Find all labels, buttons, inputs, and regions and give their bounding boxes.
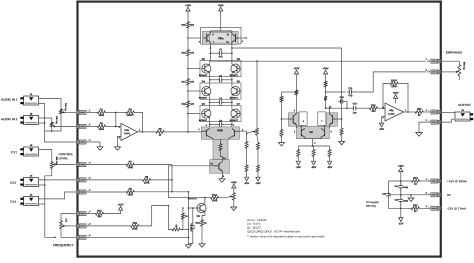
wire J2 sleeve to ground bus: [39, 122, 45, 124]
wire border to J6 sleeve: [441, 119, 455, 122]
connector K9 on left border: [76, 236, 79, 240]
resistor R23 1k: [414, 111, 424, 114]
svg-text:-15V: -15V: [311, 166, 317, 169]
wire ladder output left to emphasis: [210, 60, 257, 62]
transistor U2 outer left: [292, 115, 294, 123]
svg-text:10k log: 10k log: [64, 103, 67, 111]
wire connector7 to R10: [90, 213, 94, 215]
connector K3 on left border: [76, 140, 79, 144]
transistor U1 tail: [218, 163, 220, 169]
resistor U2 right bias lower: [324, 95, 327, 102]
trimmer offset: [182, 220, 183, 229]
svg-text:OUTPUT: OUTPUT: [458, 103, 471, 107]
pair box Q2/Q3: [200, 61, 241, 77]
svg-text:47p: 47p: [348, 94, 353, 97]
svg-text:100k: 100k: [127, 193, 133, 196]
wire chain to Q6 base: [188, 113, 202, 115]
svg-text:+15V @ 32mA: +15V @ 32mA: [447, 179, 468, 183]
resistor R7 100k: [125, 163, 135, 166]
op array U1 pins 13/14 transistor box: [210, 160, 230, 174]
resistor R19: [245, 140, 248, 149]
ground 0V: [410, 196, 412, 198]
svg-text:BC547C: BC547C: [199, 119, 208, 122]
wire P4 bottom to connector 9: [61, 230, 74, 237]
wire C13 to R21: [358, 107, 368, 109]
wire output sleeve to ground: [419, 122, 427, 130]
capacitor C4 47n: [209, 122, 211, 127]
power -15V b: [257, 173, 259, 178]
power -15V U2 b: [313, 158, 315, 162]
wire U3b feedback loop: [383, 84, 389, 109]
wire connector2 to R2: [90, 125, 96, 127]
ground output: [418, 131, 420, 133]
wire U3b output to R23: [404, 111, 415, 113]
svg-text:BC547C: BC547C: [199, 74, 208, 77]
wire P1 bottom to ground bus: [45, 115, 61, 131]
ground audio return: [99, 145, 101, 147]
wire connector3 to ground: [90, 142, 100, 145]
wire J4 tip to connector 5: [39, 179, 74, 181]
wires Q6/Q7 collectors/emitters: [209, 106, 211, 110]
wire R8 to CV bus: [152, 179, 172, 181]
resistor R15: [187, 21, 190, 30]
svg-text:TL072: TL072: [388, 113, 395, 116]
svg-text:filtering: filtering: [366, 205, 376, 208]
svg-text:U3a: U3a: [125, 129, 130, 132]
wire chain to Q4 base: [188, 90, 202, 92]
wire J3 tip to P3 top: [39, 150, 52, 161]
wire ladder output right tap: [232, 47, 342, 49]
connector K1 on left border: [76, 111, 79, 115]
connector K6 on left border: [76, 190, 79, 194]
svg-text:+15V: +15V: [294, 67, 300, 70]
wire R21 to U3b inverting input: [379, 107, 385, 109]
svg-text:A B: A B: [64, 218, 67, 222]
power -15V U3b: [382, 116, 386, 118]
connector K5 on left border: [76, 178, 79, 182]
jack J1 AUDIO IN 1: [24, 96, 39, 105]
gray tail U1 current source: [213, 139, 228, 159]
ground U2 left: [281, 141, 283, 143]
svg-text:R22**: R22**: [391, 79, 397, 82]
wire J4 sleeve to CV ground bus: [39, 184, 45, 186]
ground U2 right: [341, 140, 343, 142]
wires U2 outer left connections: [295, 107, 297, 114]
wire U2 right base column: [338, 48, 342, 119]
wire J2 tip to P2 top: [39, 118, 52, 121]
resistor U2 right bias upper: [324, 80, 327, 88]
svg-text:R16: R16: [182, 51, 187, 54]
svg-text:CV1: CV1: [11, 150, 17, 154]
resistor tail R: [219, 142, 222, 151]
svg-text:Q1 : BC557: Q1 : BC557: [247, 227, 262, 230]
op array U2 CA3046 mirror box: [296, 126, 329, 139]
capacitor C10 4u7: [339, 100, 341, 102]
wire chain to Q2 base: [188, 68, 202, 70]
capacitor C16 100u: [400, 195, 402, 200]
svg-text:TL072: TL072: [124, 132, 131, 135]
capacitor C15 100n: [387, 191, 389, 194]
wire R9 to expo base bus: [135, 191, 188, 193]
svg-text:100k: 100k: [132, 227, 138, 230]
wire R6 to U1/b pin 4: [165, 131, 201, 133]
svg-text:C5 100n: C5 100n: [190, 223, 193, 232]
wire P4 wiper to connector 8: [66, 225, 73, 227]
resistor R20: [257, 142, 260, 151]
wire R2 to op-amp inverting input: [107, 125, 122, 127]
jack J5 CV3: [24, 197, 39, 206]
wire R23 to output connector: [424, 111, 427, 113]
ground below R14: [201, 227, 203, 242]
wire J1 sleeve to ground bus: [39, 104, 45, 132]
connector OUT tip: [438, 110, 441, 114]
wire ladder right down to trimmer: [256, 61, 258, 127]
white box U2 right: [318, 112, 326, 125]
connector K8 on left border: [76, 224, 79, 228]
power +15V at R10: [119, 206, 123, 210]
svg-text:47n: 47n: [219, 55, 224, 58]
CV ground bus down to frequency pot bottom: [45, 185, 55, 237]
svg-text:CV3: CV3: [10, 200, 16, 204]
power +15V U2 right: [324, 70, 328, 74]
op-amp U3b: [385, 103, 404, 121]
power -15V filtered: [400, 208, 402, 218]
pair box Q4/Q5: [200, 83, 241, 99]
svg-text:LEVEL: LEVEL: [58, 156, 68, 160]
svg-text:50k log: 50k log: [55, 157, 58, 165]
connector EMPHASIS 1: [438, 59, 441, 63]
wire Q1 emitter to R14: [202, 212, 205, 219]
resistor R22 feedback 120k**: [389, 82, 399, 85]
wire R7 to CV bus: [135, 164, 172, 166]
svg-text:50k log: 50k log: [462, 62, 465, 70]
transistor U1/b left: [205, 130, 207, 137]
svg-text:U1,U2 : CA3046: U1,U2 : CA3046: [247, 219, 267, 222]
ground expo bus: [188, 243, 190, 245]
transistor U1/a right: [235, 34, 237, 43]
power +15V filtered: [399, 168, 403, 172]
wire emphasis return: [354, 72, 426, 92]
svg-text:100k**: 100k**: [127, 114, 134, 117]
wire emphasis feed long: [257, 60, 426, 62]
wire P4 top to connector 7: [61, 214, 74, 220]
svg-text:-15V: -15V: [255, 182, 261, 185]
connector 0V: [438, 193, 441, 197]
wire U1b right base node: [247, 132, 253, 134]
wire J5 sleeve to CV ground bus: [39, 203, 45, 205]
wire emphasis wiper: [441, 71, 454, 73]
wire base to outer transistor left: [282, 118, 292, 120]
capacitor C5 100n: [192, 222, 194, 226]
wire R15 to U1/a base: [187, 29, 189, 48]
potentiometer P3 CONTROL LEVEL 50k: [50, 161, 53, 170]
transistor Q5 BC547: [231, 87, 240, 96]
wires Q2/Q3 collectors/emitters: [209, 61, 211, 65]
svg-text:AUDIO IN 1: AUDIO IN 1: [1, 98, 18, 102]
wire R10 up to +15V: [105, 210, 121, 214]
wire P3 bottom to CV ground bus: [45, 170, 52, 185]
svg-text:-15V: -15V: [327, 166, 333, 169]
svg-text:-15V @ 17mA: -15V @ 17mA: [447, 207, 467, 211]
potentiometer P4 FREQUENCY: [60, 220, 63, 231]
wire P3 wiper to connector 4: [57, 164, 74, 166]
potentiometer P1 10k log: [60, 108, 63, 115]
svg-text:R25: R25: [413, 204, 418, 207]
svg-text:** resistor value to be adjust: ** resistor value to be adjusted to adap…: [247, 235, 325, 238]
svg-text:R14: R14: [196, 222, 201, 225]
transistor U2 inner right: [324, 130, 326, 136]
resistor R13 100k: [209, 196, 219, 199]
wire connector5 to R8: [90, 179, 141, 181]
wire P2 bottom to ground bus: [51, 128, 53, 131]
svg-text:100k: 100k: [144, 181, 150, 184]
resistor R24 10: [421, 180, 427, 182]
wire connector9 to expo ground bus: [90, 236, 189, 238]
svg-text:R18: R18: [182, 103, 187, 106]
trimmer T3 gain: [256, 127, 259, 136]
wire U1/a right base stub: [239, 37, 246, 39]
svg-text:100k: 100k: [99, 128, 105, 131]
pair box Q6/Q7: [200, 106, 241, 122]
resistor R21 10k: [368, 107, 378, 110]
svg-text:+15V: +15V: [218, 4, 224, 7]
svg-text:U2: U2: [309, 131, 313, 134]
capacitor C11 47p emphasis hf: [326, 91, 346, 93]
op array U1/b CA3046 lower pair: [201, 127, 239, 139]
svg-text:U1/b: U1/b: [217, 129, 223, 132]
transistor U2 outer right: [332, 115, 334, 123]
resistor R6 1k: [155, 130, 165, 133]
svg-text:Q2/Q3,Q4/Q5,Q6/Q7 : BC547 matc: Q2/Q3,Q4/Q5,Q6/Q7 : BC547 matched pairs: [247, 230, 301, 233]
svg-text:-15V: -15V: [296, 166, 302, 169]
power +15V ladder left: [186, 7, 190, 11]
transistor Q6 BC547: [202, 109, 211, 118]
svg-text:R17: R17: [182, 80, 187, 83]
resistor U2 tail c: [328, 148, 331, 157]
wire U3a non-inverting input to ground: [118, 136, 122, 145]
svg-text:120k: 120k: [391, 85, 397, 88]
wire P1 wiper to connector 1: [66, 111, 73, 113]
wire Q1 collector up to R13 row: [205, 198, 210, 204]
wire R1 to summing node: [107, 111, 116, 113]
ground at U3a + input: [117, 145, 119, 147]
connector -15V: [438, 207, 441, 211]
wire U1/b right base out: [240, 131, 247, 133]
connector +15V: [438, 179, 441, 183]
resistor R1 100k: [96, 111, 106, 114]
wire summing node vertical: [115, 112, 117, 126]
op array U1/a CA3046 upper pair: [201, 27, 241, 44]
svg-text:100µ: 100µ: [403, 200, 409, 203]
resistor R12 tempco: [181, 212, 184, 220]
svg-text:10k log: 10k log: [55, 116, 58, 124]
svg-text:R24: R24: [413, 177, 418, 180]
jack J3 CV1: [24, 147, 39, 156]
jack J2 AUDIO IN 2: [24, 116, 39, 125]
transistor Q2 BC547: [202, 64, 211, 73]
capacitor C13 10u: [352, 107, 354, 109]
power +15V U1/a collector: [219, 7, 223, 11]
resistor R5 feedback 100k**: [125, 111, 135, 114]
svg-text:100k: 100k: [212, 199, 218, 202]
capacitor C3 47n: [209, 99, 211, 105]
wire tail emitter to ground: [222, 171, 224, 177]
wire 0V rail: [388, 194, 427, 196]
svg-text:BC547C: BC547C: [230, 96, 239, 99]
wire connector1 to R1: [90, 111, 96, 113]
op-amp U3a: [121, 123, 138, 140]
svg-text:10k: 10k: [371, 110, 376, 113]
svg-text:100µ: 100µ: [403, 186, 409, 189]
svg-text:-15V: -15V: [379, 128, 385, 131]
resistor U2 left bias lower: [280, 95, 283, 103]
resistor R9 100k: [125, 190, 135, 193]
wire U3a output to R6: [138, 131, 155, 133]
potentiometer P5 EMPHASIS 50k: [458, 64, 461, 78]
wire +15 rail: [388, 180, 410, 182]
resistor U2 left bias upper: [295, 89, 298, 96]
svg-text:R13: R13: [212, 194, 217, 197]
op array U2 gray box outer left: [288, 113, 299, 126]
wire U2 pin11 rail: [329, 107, 351, 109]
svg-text:+15V: +15V: [393, 92, 399, 95]
resistor R17: [187, 78, 190, 87]
svg-text:+15V: +15V: [185, 4, 191, 7]
wire P2 wiper to connector 2: [57, 125, 74, 127]
svg-text:U3 : TL072: U3 : TL072: [247, 223, 261, 226]
connector EMPHASIS 2: [438, 70, 441, 74]
svg-text:BC547C: BC547C: [230, 119, 239, 122]
CV bus vertical: [171, 165, 173, 192]
resistor R10 680: [94, 212, 104, 215]
wire emphasis to pot top: [441, 61, 459, 63]
svg-text:0V: 0V: [447, 193, 451, 197]
wire border to J6 tip: [441, 111, 455, 113]
wires U2 outer right connections: [328, 108, 330, 114]
svg-text:R23: R23: [417, 108, 422, 111]
svg-text:100k: 100k: [127, 166, 133, 169]
svg-text:U3 supply: U3 supply: [366, 201, 379, 204]
white box U2 left: [299, 112, 307, 125]
wire pin12 to Q1 collector: [169, 166, 214, 198]
wire R11 up to node: [140, 206, 169, 226]
expo base bus vertical: [188, 192, 190, 243]
svg-text:+15V: +15V: [231, 181, 237, 184]
svg-text:BC547C: BC547C: [230, 74, 239, 77]
wires Q4/Q5 collectors/emitters: [209, 83, 211, 87]
op array U2 gray box outer right: [327, 113, 338, 126]
power -15V U2 a: [297, 158, 299, 162]
wire trimmer loop: [169, 206, 172, 230]
wire node to R5 and to op-amp output: [116, 111, 125, 113]
power -15V U2 c: [329, 158, 331, 162]
svg-text:AUDIO IN 2: AUDIO IN 2: [1, 117, 18, 121]
wire J5 tip to connector 6: [39, 192, 74, 199]
wire connector8 to R11: [90, 225, 130, 227]
transistor U1/b right: [233, 130, 235, 137]
svg-text:+15V: +15V: [398, 165, 404, 168]
transistor Q1 BC557: [197, 203, 206, 212]
connector K7 on left border: [76, 212, 79, 216]
connector K2 on left border: [76, 125, 79, 129]
svg-text:+15V: +15V: [323, 67, 329, 70]
wire bus to Q1 base: [189, 207, 197, 209]
svg-text:U1/a: U1/a: [218, 37, 224, 40]
wire ground bus to connector 3: [45, 131, 74, 142]
capacitor C1 47n: [217, 52, 219, 54]
wire U2 tail rail: [298, 145, 329, 147]
svg-text:C11: C11: [348, 87, 353, 90]
svg-text:CV2: CV2: [10, 181, 16, 185]
svg-text:R21: R21: [371, 104, 376, 107]
svg-text:C10: C10: [340, 96, 345, 99]
wire connector4 to R7: [90, 164, 125, 166]
ground below trimmer: [233, 201, 235, 205]
power +15V U2 left: [294, 70, 298, 74]
power -15V a: [246, 173, 248, 178]
resistor to -15V b: [257, 164, 260, 173]
svg-text:C13: C13: [353, 102, 358, 105]
resistor R14 1k: [201, 219, 204, 228]
resistor R11 100k: [130, 224, 140, 227]
resistor R8 100k: [141, 178, 151, 181]
potentiometer P2 10k log: [50, 121, 53, 128]
PCB border frame: [78, 2, 441, 257]
resistor R2 100k: [96, 125, 106, 128]
power +15V U3b: [394, 95, 398, 99]
svg-text:100k: 100k: [99, 114, 105, 117]
connector K4 on left border: [76, 163, 79, 167]
svg-text:R11: R11: [133, 222, 138, 225]
left filter branch: [387, 181, 389, 191]
wire connector6 to R9: [90, 191, 125, 193]
svg-text:U3b: U3b: [389, 109, 394, 112]
wire U1/a collector rail: [210, 31, 232, 34]
transistor Q4 BC547: [202, 87, 211, 96]
transistor U2 inner left: [300, 130, 302, 136]
svg-text:R15: R15: [182, 24, 187, 27]
wire R13 to trimmer wiper: [220, 197, 229, 199]
svg-text:+15V: +15V: [118, 203, 124, 206]
svg-text:680: 680: [97, 215, 102, 218]
svg-text:FREQUENCY: FREQUENCY: [53, 243, 75, 247]
wire J1 tip to P1 top: [39, 99, 62, 108]
power +15V above trimmer: [232, 184, 236, 188]
wire U2 left base column: [281, 103, 283, 128]
resistor U2 left base to ground: [280, 128, 283, 137]
capacitor C2 47n: [209, 77, 211, 83]
wire U1/a emitters down: [209, 42, 212, 61]
svg-text:R10: R10: [97, 209, 102, 212]
resistor to -15V a: [245, 164, 248, 173]
resistor U2 right base to ground: [340, 127, 343, 136]
transistor U1/a left: [206, 34, 208, 43]
capacitor C14 100u: [400, 181, 402, 186]
jack J4 CV2: [24, 178, 39, 187]
connector OUT sleeve: [438, 120, 441, 124]
svg-text:-15V: -15V: [244, 182, 250, 185]
wires to -15V resistors: [246, 150, 248, 164]
transistor Q3 BC547: [231, 64, 240, 73]
svg-text:-15V: -15V: [398, 222, 404, 225]
svg-text:BC547C: BC547C: [199, 96, 208, 99]
trimmer pot scale trim: [232, 192, 235, 202]
wire U2 tail down: [305, 137, 313, 146]
transistor Q7 BC547: [231, 109, 240, 118]
resistor U2 tail a: [297, 148, 300, 157]
wire -15 rail: [388, 207, 410, 209]
resistor R18: [187, 100, 190, 109]
